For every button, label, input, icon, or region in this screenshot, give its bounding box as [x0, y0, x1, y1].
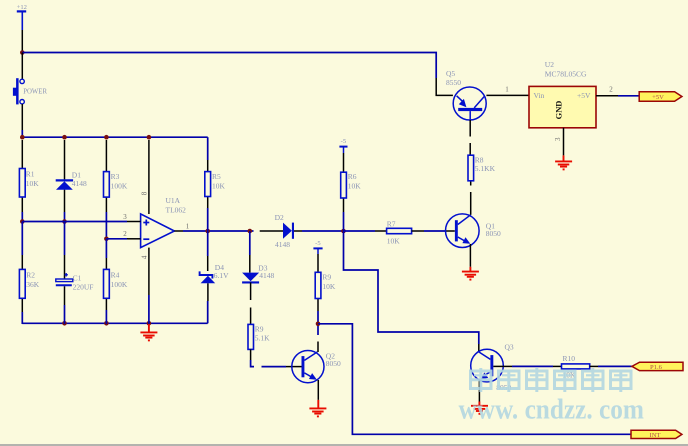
node output R5: [205, 229, 210, 234]
svg-text:R9: R9: [255, 325, 264, 334]
wire R3 pins: [105, 140, 107, 239]
node +12 junction: [20, 50, 25, 55]
svg-text:6.1V: 6.1V: [214, 271, 229, 280]
svg-text:10K: 10K: [348, 182, 362, 191]
node rail2 D1: [62, 135, 67, 140]
resistor R7: [387, 219, 412, 245]
svg-text:R9: R9: [322, 273, 331, 282]
wire bottom long net: [318, 324, 631, 435]
wire +12 stem to rail: [21, 30, 23, 53]
diode D3: [242, 264, 274, 283]
svg-text:-5: -5: [315, 240, 321, 247]
svg-text:1: 1: [505, 86, 509, 94]
svg-text:8: 8: [140, 191, 148, 195]
wire R1 pins: [21, 140, 23, 222]
resistor R3: [104, 172, 128, 198]
svg-text:U1A: U1A: [166, 196, 181, 205]
svg-text:3: 3: [554, 137, 562, 141]
wire Q3 collector pin: [478, 344, 480, 353]
svg-text:R5: R5: [212, 172, 221, 181]
svg-text:R10: R10: [563, 354, 576, 363]
svg-text:+5V: +5V: [652, 94, 664, 101]
node brail gnd: [147, 321, 152, 326]
svg-text:100K: 100K: [111, 280, 128, 289]
wire Q3 base to R10: [493, 365, 561, 367]
wire R2 pins: [21, 222, 23, 325]
wire pin2: [106, 238, 140, 240]
power +12: [17, 4, 27, 30]
svg-text:P1.6: P1.6: [650, 364, 663, 371]
svg-text:-5: -5: [341, 138, 347, 145]
ground Q3: [471, 402, 488, 414]
wire Q1 emitter to ground: [469, 244, 471, 267]
capacitor C1: [56, 273, 94, 292]
svg-text:D2: D2: [275, 213, 284, 222]
diode D1: [56, 171, 87, 190]
wire D2 anode pin: [260, 230, 283, 232]
svg-text:Q3: Q3: [505, 343, 514, 352]
regulator U2 MC78L05CG: [529, 60, 596, 128]
svg-text:4148: 4148: [259, 271, 274, 280]
wire Q3 emitter: [478, 380, 480, 402]
wire R7 left: [344, 230, 387, 232]
op-amp U1A: [140, 191, 186, 259]
wire Q5 base to R8: [469, 120, 471, 155]
wire R9 pins: [317, 254, 319, 324]
svg-text:GND: GND: [555, 101, 564, 120]
transistor Q2: [292, 351, 341, 383]
node rail2 R3: [104, 135, 109, 140]
svg-text:220UF: 220UF: [73, 283, 94, 292]
svg-text:Vin: Vin: [534, 91, 545, 100]
wire D2 cathode to R6 node: [294, 230, 344, 232]
watermark line1: [471, 368, 632, 392]
wire R10 to port: [590, 365, 632, 367]
svg-text:1: 1: [186, 222, 190, 230]
node rail2 left: [20, 135, 25, 140]
switch POWER: [13, 53, 48, 131]
svg-text:TL062: TL062: [166, 206, 187, 215]
svg-text:4: 4: [140, 255, 148, 259]
resistor R1: [19, 169, 39, 198]
power -5 (R9): [313, 240, 322, 254]
port P1.6: [632, 362, 683, 371]
ground Q1: [462, 267, 479, 280]
transistor Q5: [446, 69, 486, 120]
node pin3 D1: [62, 219, 67, 224]
resistor R10: [562, 354, 590, 379]
wire Q5 emitter feed: [436, 78, 453, 95]
resistor R5: [205, 172, 226, 197]
node pin3 left: [20, 219, 25, 224]
ground G1: [140, 323, 157, 340]
wire Q2 collector: [317, 324, 319, 352]
node brail D1: [62, 321, 67, 326]
svg-text:5.1KK: 5.1KK: [475, 164, 496, 173]
wire opamp pin8 power: [148, 140, 150, 214]
wire Q1 collector to R8: [470, 181, 472, 215]
wire Q5 collector to U2: [486, 94, 529, 96]
svg-text:10K: 10K: [387, 237, 401, 246]
svg-text:R8: R8: [475, 155, 484, 164]
svg-text:8050: 8050: [486, 229, 501, 238]
wire R5 column: [207, 137, 209, 231]
wire switch to rail2: [21, 130, 23, 137]
svg-text:100K: 100K: [111, 181, 128, 190]
svg-text:C1: C1: [73, 273, 82, 282]
svg-text:2: 2: [123, 230, 127, 238]
wire pin3: [22, 221, 140, 223]
port +5V: [639, 92, 682, 101]
resistor R4: [104, 269, 128, 298]
wire U2 gnd pin: [563, 128, 565, 156]
wire D3 to R9b: [250, 282, 252, 324]
svg-text:4148: 4148: [275, 240, 290, 249]
wire +12 rail to Q5 emitter: [22, 53, 436, 79]
svg-text:R1: R1: [26, 170, 35, 179]
node D3 top wire: [249, 231, 251, 273]
svg-text:2: 2: [609, 86, 613, 94]
svg-text:R4: R4: [111, 271, 120, 280]
resistor R6: [341, 172, 362, 198]
port INT: [631, 430, 682, 439]
wire bottom rail: [22, 322, 207, 324]
svg-text:R6: R6: [348, 172, 357, 181]
svg-text:R7: R7: [387, 219, 396, 228]
svg-text:10K: 10K: [322, 282, 336, 291]
ground U2: [555, 155, 572, 169]
svg-text:R2: R2: [26, 271, 35, 280]
svg-text:+12: +12: [17, 4, 27, 11]
svg-text:POWER: POWER: [23, 88, 47, 95]
transistor Q1: [446, 214, 502, 248]
wire opamp pin4 power: [148, 248, 150, 324]
svg-text:10K: 10K: [26, 179, 40, 188]
node output D3: [248, 229, 253, 234]
wire junction to Q3 collector feed: [344, 231, 479, 344]
wire Q2 emitter: [317, 380, 319, 400]
bottom edge line: [0, 444, 688, 446]
node rail2 opamp: [147, 135, 152, 140]
svg-text:U2: U2: [545, 60, 554, 69]
wire opamp output: [174, 230, 253, 232]
node pin2 R3: [104, 237, 109, 242]
svg-text:MC78L05CG: MC78L05CG: [545, 69, 587, 78]
svg-text:www. cndzz. com: www. cndzz. com: [459, 394, 645, 426]
node R9 bottom junction: [316, 322, 321, 327]
svg-text:Q5: Q5: [446, 69, 455, 78]
node brail R4: [104, 321, 109, 326]
resistor R9: [315, 272, 336, 298]
svg-text:3: 3: [123, 213, 127, 221]
svg-text:4148: 4148: [72, 179, 87, 188]
resistor R2: [19, 269, 39, 298]
svg-text:INT: INT: [650, 432, 661, 439]
svg-text:36K: 36K: [26, 280, 40, 289]
wire R9b to Q2 base: [251, 349, 302, 366]
power -5 (R6): [339, 138, 347, 153]
resistor R9 5.1K: [248, 324, 270, 349]
wire U2 output: [596, 95, 639, 97]
diode D2: [275, 213, 294, 249]
svg-text:8550: 8550: [446, 78, 461, 87]
svg-text:10K: 10K: [212, 181, 226, 190]
node R6 junction: [341, 229, 346, 234]
resistor R8: [468, 155, 496, 181]
wire C1 pins: [64, 222, 66, 325]
svg-text:+5V: +5V: [577, 91, 591, 100]
wire R7 right to Q1 base: [412, 230, 455, 232]
wire D1 pins: [64, 140, 66, 222]
wire R4 pins: [105, 239, 107, 324]
wire top rail2: [22, 136, 207, 138]
zener D4: [200, 263, 230, 283]
ground Q2: [309, 400, 326, 417]
transistor Q3: [471, 343, 514, 393]
svg-text:5.1K: 5.1K: [255, 334, 270, 343]
svg-text:R3: R3: [111, 172, 120, 181]
wire R6 pins: [343, 153, 345, 231]
svg-text:8050: 8050: [326, 359, 341, 368]
wire D4 pins: [207, 231, 209, 323]
